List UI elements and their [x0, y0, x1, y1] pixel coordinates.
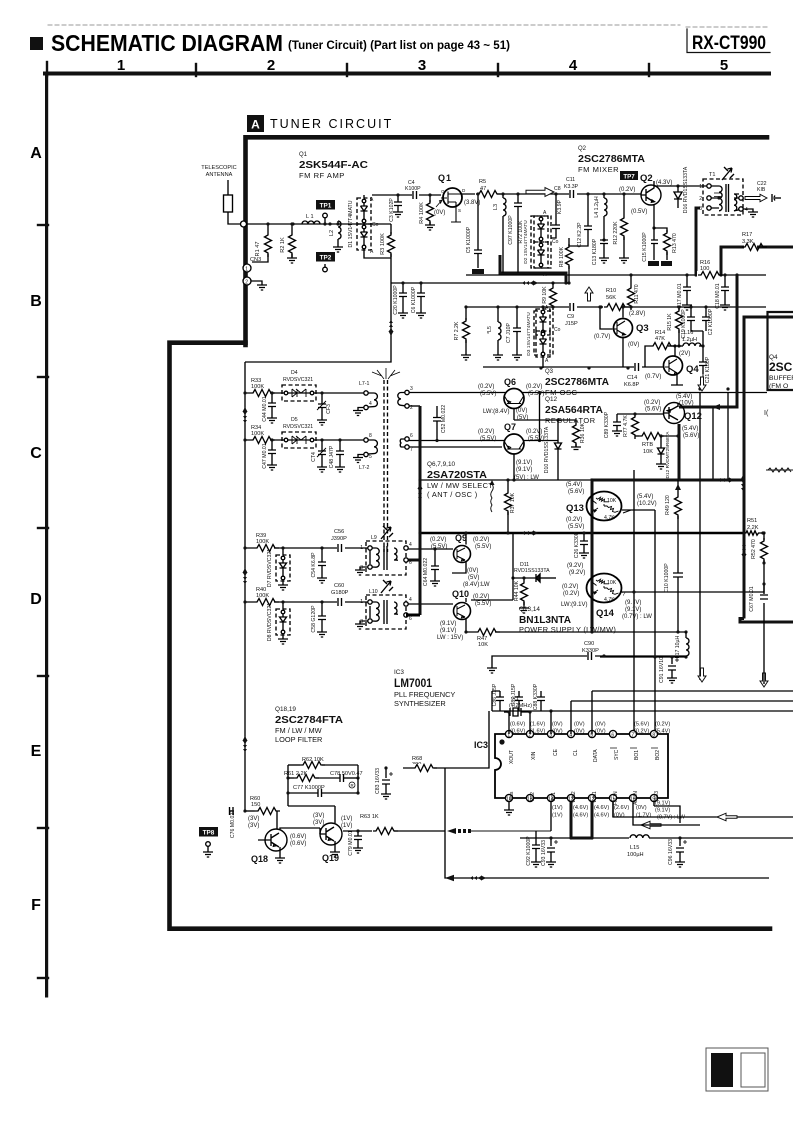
svg-text:C88 K330P: C88 K330P	[533, 683, 539, 710]
svg-text:CT4: CT4	[311, 452, 317, 462]
wire pll y701	[571, 700, 793, 702]
wire C9 bus y307	[465, 306, 766, 308]
svg-text:(1V): (1V)	[552, 805, 563, 811]
svg-text:2: 2	[699, 196, 702, 202]
IC3 top pins	[505, 722, 670, 765]
coil L7 secondary top	[398, 386, 413, 411]
label Q13 group part	[519, 606, 616, 634]
arrow hollow dn x702	[698, 668, 706, 682]
wire C90 bus y656	[492, 656, 686, 668]
wire right rail x728	[727, 393, 729, 481]
svg-text:C18 M0.01: C18 M0.01	[715, 283, 721, 308]
svg-text:R51: R51	[747, 518, 757, 524]
svg-text:(0.7V) : LW: (0.7V) : LW	[657, 815, 686, 821]
capacitor C83	[375, 766, 393, 799]
svg-text:(0.6V): (0.6V)	[510, 729, 525, 735]
transformer L9	[355, 526, 412, 575]
capacitor C11	[564, 177, 579, 198]
svg-text:(0.6V): (0.6V)	[290, 834, 306, 840]
resistor R60	[243, 796, 280, 815]
svg-text:T1: T1	[709, 172, 716, 178]
svg-text:C90: C90	[584, 641, 594, 647]
svg-text:BUFFEF: BUFFEF	[769, 375, 793, 382]
svg-text:Q1: Q1	[438, 173, 452, 183]
arrow up x420	[417, 484, 422, 500]
wire c91 y657	[600, 656, 686, 658]
svg-text:Q7: Q7	[504, 422, 516, 432]
svg-text:56K: 56K	[606, 295, 616, 301]
wire thick lw rail x420	[419, 406, 422, 615]
capacitor C44	[262, 391, 277, 423]
svg-text:C54 K6.8P: C54 K6.8P	[311, 552, 317, 578]
svg-text:R8 100K: R8 100K	[559, 246, 565, 267]
svg-text:(9. IV): (9. IV)	[625, 600, 641, 606]
svg-text:R4 100K: R4 100K	[419, 202, 425, 224]
transistor Q1	[434, 173, 480, 222]
wire B+ rail y275	[466, 274, 766, 276]
resistor R52	[751, 533, 768, 684]
svg-text:R: R	[351, 783, 354, 788]
wire R39 bus y548	[245, 547, 370, 549]
pin circles top	[505, 730, 512, 737]
svg-text:(9.1V): (9.1V)	[516, 467, 532, 473]
svg-text:R5: R5	[479, 179, 486, 185]
svg-text:(2.6V): (2.6V)	[614, 805, 629, 811]
capacitor C13	[592, 238, 609, 265]
transistor Q6	[478, 377, 544, 421]
wire bo2 riser x655	[654, 510, 656, 731]
svg-text:(0V): (0V)	[628, 342, 639, 348]
svg-text:(5.5V): (5.5V)	[480, 391, 496, 397]
svg-text:100µH: 100µH	[627, 852, 644, 858]
capacitor C64m	[423, 547, 440, 586]
svg-text:R36 10K: R36 10K	[580, 422, 586, 443]
capacitor C6	[411, 281, 426, 318]
svg-text:CE: CE	[553, 748, 559, 756]
svg-text:Vdd1: Vdd1	[592, 791, 598, 803]
svg-text:(4.6V): (4.6V)	[594, 805, 609, 811]
arrow on y533 bus	[522, 530, 538, 535]
svg-text:(0V): (0V)	[614, 813, 625, 819]
wire pll y691	[592, 690, 793, 692]
left ruler line	[45, 72, 48, 998]
label Q6 group part	[427, 461, 539, 499]
svg-text:(3V): (3V)	[248, 823, 259, 829]
trimmer CT4	[311, 438, 327, 472]
svg-text:4: 4	[409, 597, 412, 603]
svg-text:DATA: DATA	[593, 749, 599, 762]
svg-text:D: D	[462, 188, 466, 193]
transistor Q18	[248, 811, 308, 864]
svg-text:(0.2V): (0.2V)	[566, 517, 582, 523]
arrow hollow dn x702	[698, 377, 706, 391]
capacitor C52	[433, 405, 447, 442]
svg-text:4: 4	[569, 57, 578, 74]
svg-text:RVDSVC321: RVDSVC321	[283, 377, 313, 383]
arrow left on y831	[447, 828, 471, 834]
varactor D5	[282, 417, 316, 448]
svg-text:E: E	[31, 743, 42, 760]
wires bottom pins	[551, 802, 700, 832]
svg-text:C64 M0.022: C64 M0.022	[423, 558, 429, 586]
resistor R36	[571, 420, 586, 450]
svg-text:R10: R10	[606, 288, 616, 294]
telescopic antenna	[201, 165, 240, 224]
svg-text:FM RF AMP: FM RF AMP	[299, 171, 345, 180]
arrow hollow left y817	[717, 813, 737, 821]
svg-text:A: A	[545, 305, 549, 311]
svg-text:5: 5	[720, 57, 728, 74]
svg-text:D: D	[30, 591, 42, 608]
IC3 bottom pins	[504, 791, 686, 821]
ferrite bar antenna rod	[384, 380, 388, 552]
wire R68 y768	[403, 711, 489, 768]
junction dots on buses	[242, 222, 764, 839]
svg-text:CL: CL	[573, 749, 579, 756]
svg-text:L15: L15	[630, 845, 639, 851]
svg-text:I(: I(	[764, 410, 769, 417]
transistor Q10	[437, 589, 491, 641]
svg-text:K3.9P: K3.9P	[557, 199, 563, 214]
svg-text:(5.6V): (5.6V)	[645, 407, 661, 413]
resistor R78	[635, 433, 680, 456]
svg-text:J15P: J15P	[565, 321, 578, 327]
svg-text:C58 G120P: C58 G120P	[311, 605, 317, 633]
resistor R77	[623, 412, 639, 439]
crystal X1	[504, 696, 532, 719]
svg-text:G180P: G180P	[331, 590, 349, 596]
svg-text:(0.6V): (0.6V)	[510, 722, 525, 728]
hollow arrows	[526, 188, 768, 829]
svg-text:2: 2	[410, 405, 413, 411]
svg-text:(9.2V): (9.2V)	[569, 570, 585, 576]
label Q1 part	[299, 152, 368, 180]
svg-text:C7 J10P: C7 J10P	[506, 323, 512, 343]
wire Q1 gate y195	[372, 194, 441, 196]
svg-text:(9.1V): (9.1V)	[655, 808, 670, 814]
svg-text:REGULATOR: REGULATOR	[545, 416, 596, 425]
svg-text:(5.5V): (5.5V)	[480, 436, 496, 442]
arrow on osc bus	[522, 280, 538, 285]
svg-text:(9.1V): (9.1V)	[440, 621, 456, 627]
svg-text:R49 120: R49 120	[665, 495, 671, 515]
label IC3 part	[394, 669, 455, 708]
arrow into border rail upper	[242, 407, 247, 423]
wire t7 bus y447	[408, 446, 502, 448]
svg-text:A: A	[545, 358, 549, 364]
svg-text:(5.5V): (5.5V)	[475, 601, 491, 607]
svg-text:(0.7V): (0.7V)	[594, 334, 610, 340]
inductor L2	[329, 221, 343, 252]
svg-text:2SK544F-AC: 2SK544F-AC	[299, 159, 368, 171]
svg-text:R13 470: R13 470	[672, 233, 678, 253]
svg-text:3: 3	[418, 57, 426, 74]
svg-text:RTB: RTB	[642, 442, 653, 448]
resistor R34	[250, 425, 275, 444]
svg-text:(0.2V): (0.2V)	[478, 429, 494, 435]
wire thick ic3 pin13	[570, 798, 573, 838]
wire LW bus y389	[408, 392, 767, 394]
svg-text:LW:(9.1V): LW:(9.1V)	[561, 602, 587, 608]
svg-text:C48 J47P: C48 J47P	[329, 445, 335, 468]
svg-text:R37 10K: R37 10K	[510, 492, 516, 513]
capacitor C14	[624, 363, 642, 388]
svg-text:2SC2786MTA: 2SC2786MTA	[578, 153, 645, 165]
svg-text:TP1: TP1	[320, 203, 332, 210]
svg-text:(5.5V): (5.5V)	[528, 391, 544, 397]
svg-text:3: 3	[699, 206, 702, 212]
IC3 body	[474, 734, 668, 798]
svg-text:C6 K1000P: C6 K1000P	[411, 286, 417, 313]
svg-text:C77 K1000P: C77 K1000P	[293, 785, 325, 791]
svg-text:(0V): (0V)	[574, 722, 585, 728]
svg-text:(1V): (1V)	[552, 813, 563, 819]
wire bo1 riser x634	[633, 470, 635, 731]
coil L7 secondary bottom	[400, 433, 413, 453]
svg-text:2.2K: 2.2K	[747, 525, 759, 531]
svg-text:LW / MW SELECT: LW / MW SELECT	[427, 481, 493, 490]
capacitor C89	[604, 411, 622, 438]
svg-text:B: B	[30, 293, 42, 310]
svg-text:(0.2V): (0.2V)	[430, 537, 446, 543]
label Q3 part	[545, 369, 609, 397]
svg-text:ANTENNA: ANTENNA	[206, 172, 233, 178]
capacitor C67	[749, 586, 769, 611]
svg-text:( ANT / OSC ): ( ANT / OSC )	[427, 490, 478, 499]
wire supply bus y632	[466, 631, 686, 633]
svg-text:(5V) : LW: (5V) : LW	[514, 475, 539, 481]
svg-text:L10: L10	[369, 589, 378, 595]
svg-text:C93 16V33: C93 16V33	[541, 840, 547, 866]
svg-text:C92 K1000P: C92 K1000P	[526, 836, 532, 866]
arrow down on x744 below y533	[741, 543, 746, 559]
svg-text:(4.6V): (4.6V)	[594, 813, 609, 819]
svg-text:(0.2V): (0.2V)	[563, 591, 579, 597]
arrow hollow left y825	[641, 821, 661, 829]
svg-text:(9.1V): (9.1V)	[625, 607, 641, 613]
svg-text:(5.4V): (5.4V)	[655, 729, 670, 735]
svg-text:(0V): (0V)	[636, 805, 647, 811]
svg-text:(1V): (1V)	[341, 816, 352, 822]
svg-text:C14: C14	[627, 375, 637, 381]
svg-text:C10 K1000P: C10 K1000P	[664, 563, 670, 593]
svg-text:L2: L2	[329, 230, 335, 236]
svg-text:(3V): (3V)	[313, 820, 324, 826]
diode D10	[544, 420, 562, 480]
svg-text:C3 K102P: C3 K102P	[389, 198, 395, 222]
svg-text:Q2: Q2	[640, 173, 653, 184]
svg-text:Q10: Q10	[452, 589, 469, 599]
svg-text:(0.2V): (0.2V)	[526, 429, 542, 435]
svg-text:(4.6V): (4.6V)	[573, 805, 588, 811]
resistor R3	[380, 232, 396, 257]
svg-text:RX-CT990: RX-CT990	[692, 32, 766, 54]
inductor L16	[682, 330, 703, 346]
svg-text:1: 1	[245, 267, 248, 273]
svg-text:D7 RVDSVC321: D7 RVDSVC321	[267, 549, 273, 587]
svg-text:L 1: L 1	[306, 214, 314, 220]
wire right rail x700	[699, 393, 701, 681]
svg-text:BO3: BO3	[654, 791, 660, 801]
svg-text:Q6,7,9,10: Q6,7,9,10	[427, 461, 456, 468]
svg-text:(0.2V): (0.2V)	[562, 584, 578, 590]
capacitor C4	[405, 180, 421, 199]
row letters	[30, 145, 42, 914]
svg-text:RVD1SS133TA: RVD1SS133TA	[514, 568, 550, 574]
capacitor C48	[329, 438, 345, 472]
svg-text:47K: 47K	[655, 336, 665, 342]
svg-text:L9: L9	[371, 535, 377, 541]
svg-text:D1 1SV147T4MATU: D1 1SV147T4MATU	[348, 200, 354, 247]
svg-text:L7-2: L7-2	[359, 465, 369, 471]
svg-text:LM7001: LM7001	[394, 676, 432, 690]
svg-text:1: 1	[360, 599, 363, 605]
svg-text:(0.7V) : LW: (0.7V) : LW	[622, 614, 652, 620]
resistor R61 + capacitor C78	[284, 771, 363, 788]
wire R63 y828	[343, 830, 445, 832]
wire thick q13 feed	[592, 480, 744, 632]
transistor Q12	[617, 394, 702, 439]
svg-text:J390P: J390P	[331, 536, 347, 542]
capacitor C79	[348, 829, 363, 855]
svg-text:BO2: BO2	[655, 750, 661, 760]
svg-text:L4 1.2µH: L4 1.2µH	[594, 196, 600, 217]
svg-text:R3 100K: R3 100K	[380, 233, 386, 255]
capacitor C56	[331, 529, 347, 552]
svg-text:(5.5V): (5.5V)	[475, 544, 491, 550]
arrow on q12 thick	[712, 404, 720, 410]
resistor R68	[412, 756, 437, 772]
svg-text:(2V): (2V)	[679, 351, 690, 357]
wire mw bus y480	[420, 479, 592, 481]
next stage block outline	[766, 312, 793, 472]
capacitor C15b	[642, 226, 659, 266]
svg-text:5: 5	[369, 454, 372, 460]
svg-text:C13 K180P: C13 K180P	[592, 238, 598, 265]
svg-text:(0V): (0V)	[552, 729, 563, 735]
svg-text:D10 RVD1SS133TA: D10 RVD1SS133TA	[544, 426, 550, 473]
svg-text:2SC2786MTA: 2SC2786MTA	[545, 376, 609, 388]
svg-text:C97 K1000P: C97 K1000P	[508, 215, 514, 245]
flow arrows	[242, 280, 734, 881]
wire R40 bus y602	[245, 601, 370, 603]
wire L15 bus y838	[520, 837, 793, 839]
svg-text:P02: P02	[530, 792, 536, 801]
capacitor C47	[262, 438, 277, 470]
svg-text:Vdd2: Vdd2	[571, 791, 577, 803]
svg-text:2SC2784FTA: 2SC2784FTA	[275, 714, 343, 726]
svg-text:IC3: IC3	[394, 669, 404, 676]
wire thick t6 l9	[406, 559, 420, 562]
svg-text:Q4: Q4	[686, 364, 699, 375]
capacitor C23	[702, 305, 714, 346]
svg-text:Q18,19: Q18,19	[275, 706, 296, 713]
svg-text:Q9: Q9	[455, 533, 467, 543]
svg-text:6: 6	[410, 433, 413, 439]
svg-text:(1.6V): (1.6V)	[530, 722, 545, 728]
svg-text:FM / LW / MW: FM / LW / MW	[275, 726, 322, 735]
svg-text:(9.1V): (9.1V)	[516, 460, 532, 466]
svg-text:Q3: Q3	[545, 369, 554, 375]
trimmer CF3	[317, 391, 332, 425]
svg-text:C52 M0.022: C52 M0.022	[441, 405, 447, 433]
svg-text:C83 16V33: C83 16V33	[375, 768, 381, 794]
capacitor C10	[664, 563, 683, 634]
transistor Q19	[288, 806, 352, 863]
svg-text:C47 M0.01: C47 M0.01	[262, 443, 268, 468]
svg-text:6: 6	[409, 616, 412, 622]
svg-text:CF3: CF3	[326, 404, 332, 414]
capacitor C12	[569, 192, 592, 247]
wire q4 collector riser	[674, 346, 676, 356]
svg-text:D4: D4	[291, 370, 298, 376]
ground T1 pin4	[743, 209, 758, 217]
svg-text:2SA720STA: 2SA720STA	[427, 469, 487, 481]
svg-text:C67 M0.01: C67 M0.01	[749, 586, 755, 611]
arrow on y480 bus right	[718, 477, 734, 482]
faint dotted top rule	[48, 25, 770, 27]
wire Q1 drain to Q2 base y194	[462, 193, 641, 195]
svg-text:LW:(8.4V): LW:(8.4V)	[483, 409, 509, 415]
svg-text:(10.2V): (10.2V)	[637, 501, 657, 507]
svg-text:R61 2.2K: R61 2.2K	[284, 771, 308, 777]
svg-text:Q12: Q12	[684, 411, 702, 422]
resistor R62	[288, 757, 358, 806]
wire osc emitter bus y368	[483, 366, 665, 368]
svg-text:1: 1	[699, 184, 702, 190]
resistor R16	[697, 260, 723, 279]
svg-text:CN3: CN3	[250, 257, 261, 263]
svg-text:C56: C56	[334, 529, 344, 535]
svg-text:R77 4.7K: R77 4.7K	[623, 415, 629, 437]
wire thick r17 elbow	[721, 247, 793, 275]
node antenna input	[241, 221, 247, 227]
svg-text:(Tuner Circuit) (Part list on: (Tuner Circuit) (Part list on page 43 ~ …	[288, 38, 510, 52]
resistor R9	[542, 281, 557, 310]
svg-text:(9.1V): (9.1V)	[440, 628, 456, 634]
resistor R33	[250, 378, 275, 397]
svg-text:(5.5V): (5.5V)	[528, 436, 544, 442]
svg-text:(0V): (0V)	[516, 408, 527, 414]
wire R34 bus y440	[245, 439, 366, 441]
capacitor C26	[574, 531, 589, 558]
svg-text:1: 1	[117, 57, 125, 74]
svg-text:10K: 10K	[478, 642, 488, 648]
capacitor C86	[492, 683, 504, 711]
svg-text:A: A	[370, 249, 374, 255]
capacitor C91	[659, 655, 679, 683]
transistor Q3	[594, 305, 649, 367]
svg-text:(0.7V): (0.7V)	[645, 374, 661, 380]
wire R33 bus y393	[245, 392, 366, 394]
svg-text:(0V): (0V)	[552, 722, 563, 728]
ground c90 bus	[487, 656, 497, 673]
resistor R2	[280, 222, 297, 263]
wire Q2 collector to T1	[654, 185, 707, 187]
svg-text:(1.6V): (1.6V)	[530, 729, 545, 735]
capacitor C20	[393, 281, 408, 318]
svg-text:(5.4V): (5.4V)	[676, 394, 692, 400]
capacitor C7	[506, 305, 522, 360]
svg-text:RVDSVC321: RVDSVC321	[283, 424, 313, 430]
capacitor C54	[311, 546, 327, 583]
inductor L1	[302, 214, 320, 224]
svg-text:C60: C60	[334, 583, 344, 589]
svg-text:(1.7V): (1.7V)	[636, 813, 651, 819]
svg-text:L7-1: L7-1	[359, 381, 369, 387]
capacitor C19	[681, 305, 703, 338]
varactor D3	[526, 305, 561, 368]
